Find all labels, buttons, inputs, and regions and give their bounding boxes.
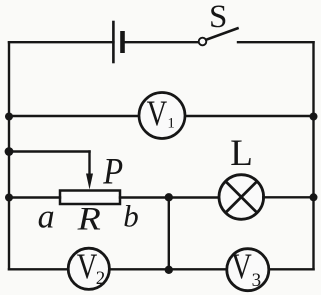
svg-text:b: b	[123, 198, 139, 233]
switch pivot circle	[199, 38, 207, 46]
svg-text:L: L	[230, 133, 253, 174]
junction node right lamp row	[310, 193, 318, 201]
svg-text:V: V	[147, 94, 168, 134]
slider arrowhead	[86, 174, 93, 190]
wire left vertical	[8, 42, 10, 269]
svg-text:P: P	[102, 150, 123, 191]
junction node left rheostat row	[5, 194, 13, 202]
battery short plate	[120, 31, 125, 53]
junction node right V1 row	[310, 113, 318, 121]
junction node bottom mid	[165, 266, 173, 274]
wire battery to switch	[123, 41, 199, 43]
svg-text:3: 3	[252, 270, 262, 291]
svg-text:2: 2	[96, 268, 106, 289]
wire V1 row left	[9, 115, 139, 117]
wire slider P row horizontal	[9, 150, 90, 152]
battery long plate	[112, 21, 115, 64]
wire bottom left segment	[9, 268, 68, 270]
wire mid vertical	[168, 197, 170, 269]
svg-text:1: 1	[167, 115, 175, 131]
svg-text:S: S	[209, 0, 227, 35]
lamp X cross	[227, 182, 257, 212]
switch arm	[206, 28, 237, 39]
wire switch to top right corner	[238, 41, 314, 43]
wire V3 to bottom right corner	[269, 268, 314, 270]
wire rheostat row left	[9, 196, 60, 198]
wire slider P vertical	[88, 152, 90, 177]
wire top left segment	[9, 41, 113, 43]
junction node left V1 row	[5, 113, 13, 121]
voltmeter V3 circle	[227, 249, 269, 291]
wire right vertical	[312, 42, 314, 269]
svg-text:a: a	[38, 198, 55, 235]
junction node lamp row mid	[165, 193, 173, 201]
lamp L circle	[219, 175, 264, 220]
svg-text:V: V	[77, 247, 98, 287]
wire V2 to mid junction	[110, 268, 227, 270]
wire rheostat to lamp	[120, 196, 219, 198]
svg-text:R: R	[77, 200, 102, 237]
voltmeter V2 circle	[68, 248, 109, 289]
rheostat R box	[60, 191, 120, 205]
junction node left P row	[5, 147, 14, 156]
wire V1 row right	[186, 115, 314, 117]
voltmeter V1 circle	[139, 93, 185, 139]
svg-text:V: V	[231, 247, 252, 287]
wire lamp to right	[263, 196, 313, 198]
